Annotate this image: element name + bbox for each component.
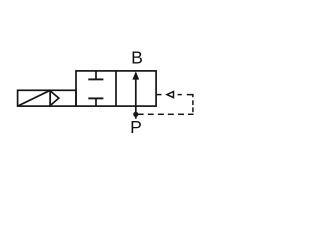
pilot line dash: bottom-right corner bbox=[188, 113, 194, 115]
pilot line dash: top-right corner bbox=[187, 95, 193, 98]
blocked port bottom stem bbox=[95, 98, 97, 106]
blocked port bottom bar bbox=[88, 97, 103, 99]
pilot line dash: valve edge to triangle bbox=[157, 94, 162, 96]
pilot line dash: bottom 3 bbox=[158, 113, 164, 115]
pilot line dash: bottom 1 at P junction bbox=[138, 113, 144, 115]
position divider bbox=[115, 71, 117, 106]
solenoid coil diagonal bbox=[18, 90, 51, 106]
actuator divider bbox=[49, 90, 51, 106]
pilot line dash: bottom 4 bbox=[168, 113, 174, 115]
pilot triangle on dashed line (points left, open) bbox=[167, 92, 174, 98]
valve body (2-position envelope) bbox=[76, 71, 156, 106]
pilot line dash: bottom 2 bbox=[148, 113, 154, 115]
svg-text:P: P bbox=[130, 117, 142, 137]
flow path arrow shaft P to B bbox=[135, 79, 137, 119]
pilot line dash: right vertical 2 bbox=[192, 107, 194, 112]
pilot line dash: after triangle bbox=[178, 94, 182, 96]
svg-text:B: B bbox=[131, 47, 143, 67]
blocked port top bar bbox=[88, 78, 103, 80]
pilot line dash: bottom 5 bbox=[178, 113, 184, 115]
pilot line dash: right vertical 1 bbox=[192, 100, 194, 105]
blocked port top (closed position) stem bbox=[95, 71, 97, 80]
junction dot at P bbox=[133, 112, 138, 117]
solenoid actuator box bbox=[18, 90, 76, 106]
flow arrowhead at port B bbox=[132, 71, 139, 79]
pilot amplifier triangle (points right) bbox=[50, 91, 59, 106]
